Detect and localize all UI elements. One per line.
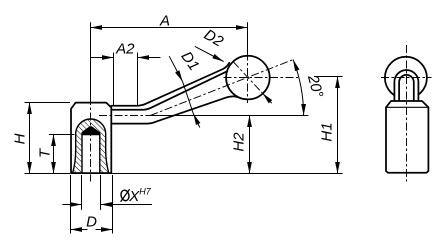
D2 diameter dash line across ball bbox=[233, 62, 262, 94]
H dim bbox=[25, 102, 71, 104]
lever inclined axis bbox=[150, 60, 293, 116]
OX dim (outside arrows) bbox=[62, 204, 81, 206]
dim A bbox=[91, 27, 248, 29]
side view horizontal centerline bbox=[381, 77, 432, 79]
ball bbox=[226, 56, 270, 100]
svg-text:A2: A2 bbox=[115, 41, 135, 58]
rod bottom edge bbox=[111, 96, 239, 123]
dim D1 leader upper arrow bbox=[169, 56, 182, 81]
svg-text:H1: H1 bbox=[319, 122, 336, 141]
neck arches bbox=[394, 70, 418, 101]
svg-text:A: A bbox=[159, 12, 170, 29]
rod top edge bbox=[111, 63, 229, 106]
outer arch bbox=[394, 70, 418, 101]
side view vertical centerline bbox=[406, 45, 408, 182]
ball circle (side) bbox=[385, 57, 427, 99]
H1 top extension from ball center bbox=[314, 76, 343, 78]
extension: ball center up to A bbox=[247, 22, 249, 53]
dim D2 leader arrow bbox=[195, 46, 224, 61]
extension lines A2 bbox=[113, 53, 115, 106]
rod second edge (taper transition) bbox=[111, 71, 227, 109]
bore centerline bbox=[90, 97, 92, 182]
hub (side view) bbox=[386, 101, 428, 173]
centerlines bbox=[91, 53, 299, 182]
lever arm (rod) bbox=[111, 63, 239, 124]
hub outline (left view) bbox=[71, 103, 111, 174]
D dim bbox=[71, 229, 88, 231]
20deg arc bbox=[293, 60, 304, 116]
ball vertical centerline bbox=[247, 53, 249, 104]
side view centerlines bbox=[381, 45, 432, 182]
svg-text:H: H bbox=[11, 133, 28, 144]
ball horizontal centerline bbox=[224, 77, 299, 79]
T dim bbox=[49, 134, 75, 136]
thread end cap (black triangle) bbox=[82, 127, 100, 135]
H2 dim bbox=[249, 116, 251, 174]
20deg: horizontal reference line bbox=[152, 115, 308, 117]
dim D1 lower arrow bbox=[193, 114, 200, 128]
hub chamfer edge (side view) bbox=[386, 106, 428, 108]
extension: bore axis up to A bbox=[90, 22, 92, 102]
rod horizontal axis bbox=[99, 115, 152, 117]
OX extension lines bbox=[81, 175, 83, 210]
dimension + extension lines bbox=[25, 22, 343, 233]
inner arch bbox=[399, 75, 414, 101]
dim D2 lower-right arrow bbox=[263, 93, 272, 103]
dim A2 (outside arrows) bbox=[91, 57, 114, 59]
svg-text:H2: H2 bbox=[230, 132, 247, 152]
H1 dim bbox=[337, 77, 339, 174]
D extension lines bbox=[70, 175, 72, 234]
svg-text:D: D bbox=[86, 214, 97, 231]
diameter symbol of label OX H7 bbox=[120, 189, 130, 201]
hatched bushing bell (section) bbox=[73, 119, 109, 173]
dim D1 line across rod bbox=[183, 82, 194, 114]
base extension line bbox=[111, 173, 342, 175]
